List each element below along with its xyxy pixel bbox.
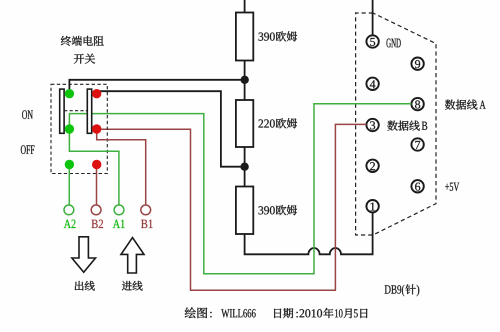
- DB9 pin 7: [411, 138, 423, 150]
- DB9 pin 3: [366, 119, 378, 131]
- pin number 7: [415, 141, 420, 149]
- wire: top rail to DB9 pin 5: [372, 0, 374, 35]
- label B2: [92, 220, 98, 228]
- wire: switch contact A-top to junction J1: [69, 80, 244, 94]
- resistor R1: [236, 13, 253, 61]
- pin number 1: [371, 203, 375, 211]
- DB9 pin 9: [411, 58, 423, 70]
- wire: R2 to R3: [244, 147, 246, 187]
- pin number 4: [370, 80, 376, 88]
- switch lever (B side): [87, 89, 91, 133]
- wire: switch contact B-top to junction J2: [97, 91, 245, 167]
- DB9 pin 4: [366, 78, 378, 90]
- switch contact dot B3 (red): [92, 160, 101, 169]
- pin number 2: [370, 162, 375, 170]
- resistor R2: [236, 100, 253, 147]
- switch contact dot A2 (green): [65, 124, 74, 133]
- label DB9(针): [385, 285, 391, 293]
- label GND: [386, 39, 390, 48]
- junction node J2: [240, 163, 248, 171]
- wire: R3 bottom to DB9 pin 1 (with crossover hops): [245, 213, 373, 255]
- label A1: [113, 220, 120, 228]
- red wire: switch B lower contact to terminal B2: [96, 165, 98, 205]
- red wire: switch B contact to DB9 pin 3: [97, 124, 367, 290]
- switch lever link (dashed): [64, 110, 87, 112]
- label 数据线 B: [387, 121, 397, 131]
- DB9 connector shell (dashed): [356, 13, 436, 235]
- title 绘图: WILL666: [185, 307, 196, 318]
- pin number 9: [415, 60, 420, 68]
- label A2: [64, 220, 71, 228]
- DB9 pin 2: [366, 160, 378, 172]
- green wire: switch A lower contact to terminal A2: [68, 165, 70, 205]
- value label R3 390欧姆: [259, 206, 264, 214]
- switch lever (A side): [60, 89, 64, 133]
- terminal A1: [114, 205, 124, 215]
- pin number 5: [370, 38, 375, 46]
- outgoing-line arrow (down): [72, 237, 96, 272]
- label 终端电阻: [61, 36, 71, 46]
- DB9 pin 5: [366, 35, 378, 47]
- switch contact dot B2 (red): [92, 124, 101, 133]
- junction node J1: [241, 76, 249, 84]
- terminal B1: [141, 205, 151, 215]
- label 开关: [74, 54, 84, 64]
- label B1: [141, 220, 147, 228]
- label OFF: [21, 145, 26, 154]
- red wire: switch B contact to terminal B1: [97, 129, 146, 205]
- terminal A2: [64, 205, 74, 215]
- value label R1 390欧姆: [259, 33, 264, 41]
- wire: R1 to R2: [244, 61, 246, 101]
- wire: top rail to resistor R1: [244, 0, 246, 13]
- switch contact dot A1 (green): [65, 89, 74, 98]
- value label R2 220欧姆: [259, 119, 264, 127]
- switch contact dot B1 (red): [92, 89, 101, 98]
- label 进线: [122, 281, 132, 291]
- resistor R3: [236, 187, 253, 235]
- label 出线: [75, 281, 84, 291]
- pin number 8: [415, 100, 420, 108]
- title 日期: 2010年10月5日: [274, 309, 281, 318]
- green wire: switch A contact to DB9 pin 8: [69, 104, 411, 274]
- label +5V: [445, 184, 449, 190]
- DB9 pin 8: [411, 98, 423, 110]
- terminal B2: [91, 205, 101, 215]
- incoming-line arrow (up): [121, 238, 144, 273]
- pin number 3: [370, 121, 375, 129]
- DB9 pin 1: [366, 200, 378, 212]
- DB9 pin 6: [411, 180, 423, 192]
- green wire: switch A contact to terminal A1: [69, 129, 119, 205]
- label ON: [22, 110, 27, 119]
- switch contact dot A3 (green): [65, 160, 74, 169]
- label 数据线 A: [445, 100, 455, 110]
- terminal-resistor switch box (dashed): [51, 84, 107, 173]
- pin number 6: [415, 183, 420, 191]
